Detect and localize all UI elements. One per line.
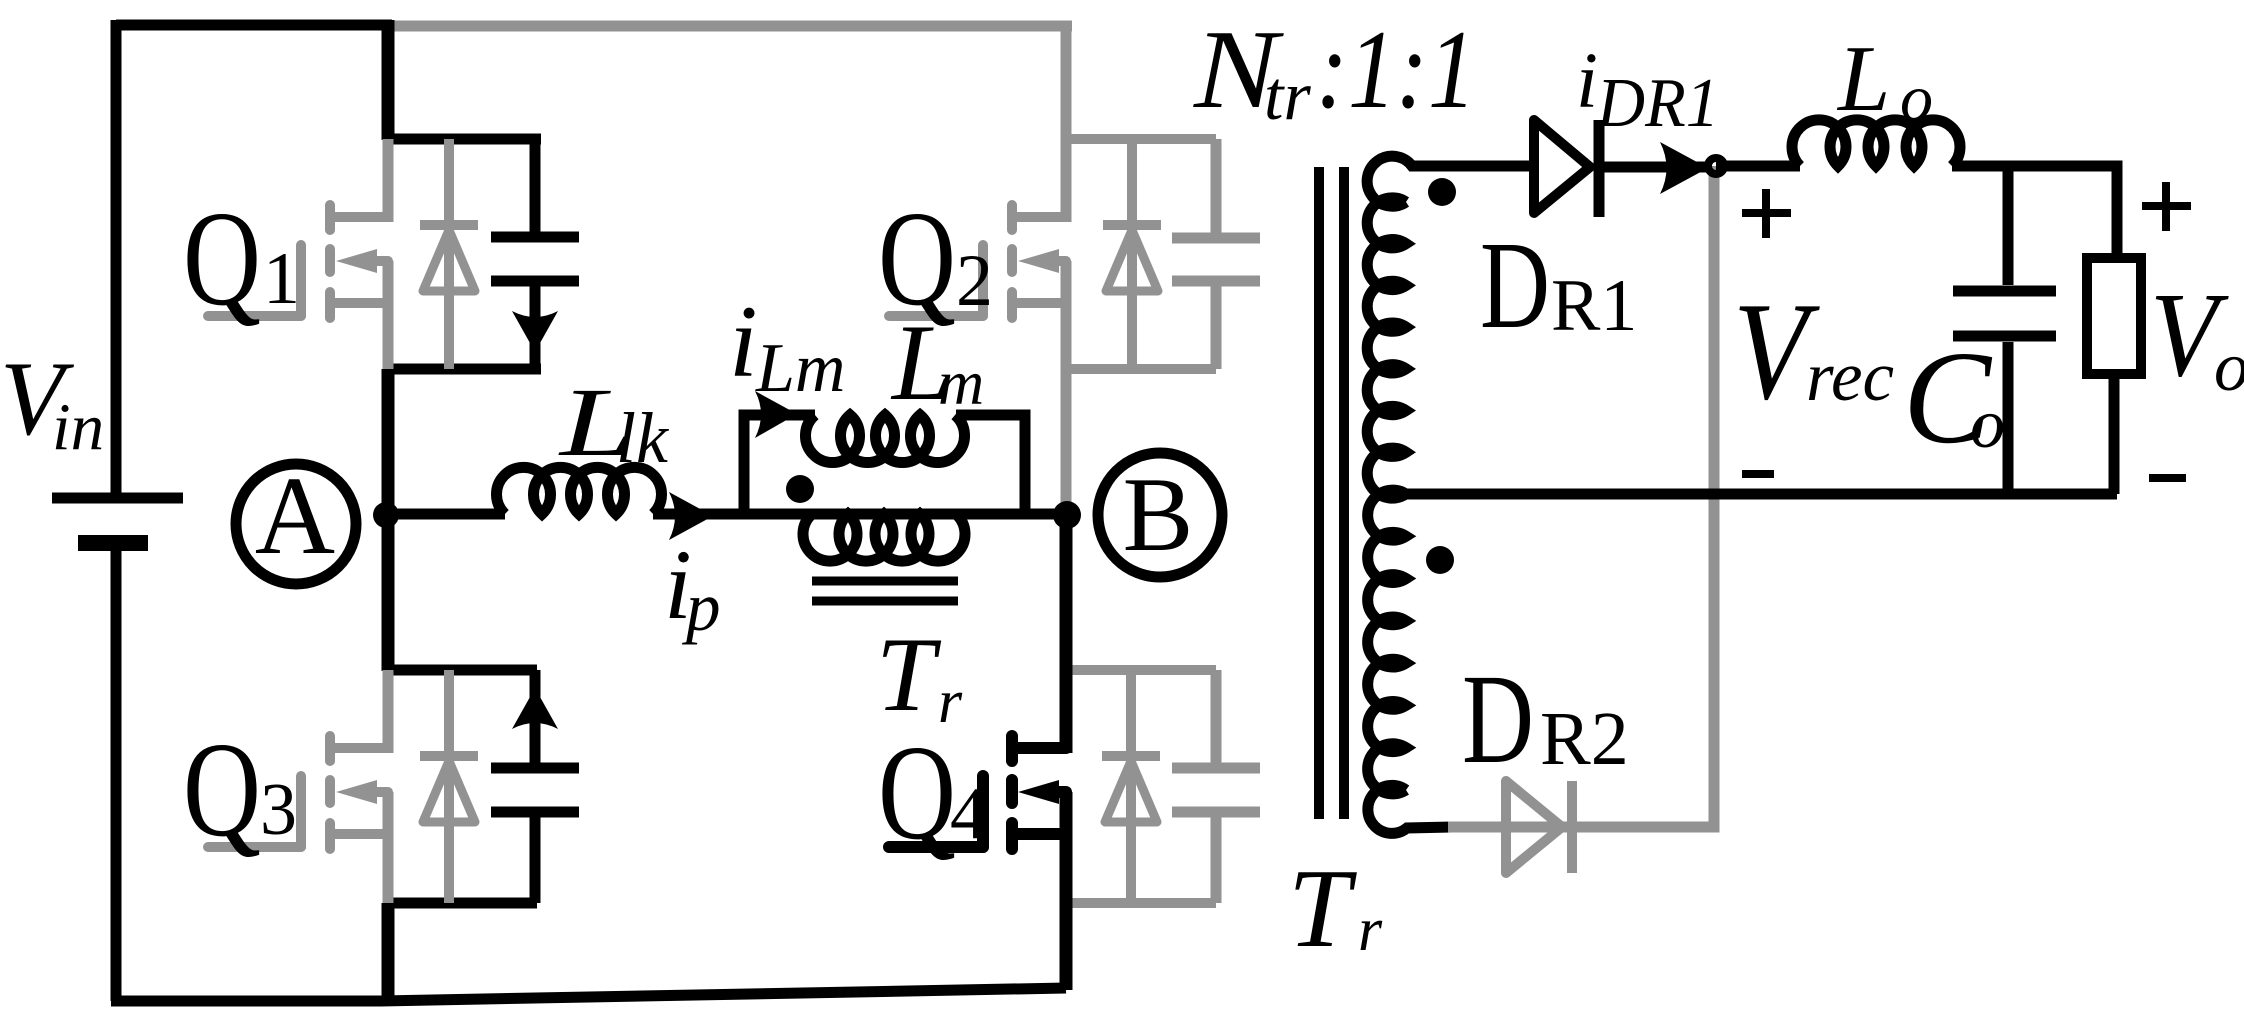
wire resistor bottom — [2109, 374, 2120, 494]
capacitor C1 — [491, 139, 579, 369]
left bridge leg upper black — [382, 20, 395, 140]
svg-text:Q: Q — [183, 184, 261, 334]
transistor Q3 — [208, 736, 388, 849]
polarity dot primary — [786, 475, 814, 503]
svg-text:i: i — [1576, 38, 1598, 125]
svg-text:Lm: Lm — [755, 330, 845, 407]
svg-text:o: o — [2214, 329, 2244, 406]
svg-text:tr: tr — [1264, 58, 1311, 135]
svg-text:1: 1 — [263, 238, 300, 320]
svg-text:p: p — [681, 569, 721, 645]
wire A to Llk — [388, 509, 505, 520]
body diode D4 — [1102, 670, 1160, 903]
wire top-left black (Vin+ to left bridge leg) — [116, 20, 392, 31]
svg-text:DR1: DR1 — [1596, 65, 1719, 142]
label - (Vo) — [2149, 474, 2186, 482]
diode DR2 (gray) — [1506, 781, 1572, 873]
svg-text:in: in — [52, 390, 104, 464]
inductor Llk — [497, 467, 662, 514]
transistor Q1 — [208, 205, 388, 318]
svg-text:2: 2 — [956, 240, 993, 322]
svg-text:L: L — [1836, 27, 1890, 131]
current arrow iDR1 — [1660, 142, 1708, 194]
transformer Tr primary core lines — [812, 581, 958, 601]
node B dot — [1053, 501, 1081, 529]
body diode D2 — [1103, 139, 1161, 369]
wire top gray (to Q2 drain) — [394, 21, 1072, 32]
current arrow through C (down) — [512, 311, 558, 352]
svg-text:o: o — [1970, 386, 2005, 463]
current arrow ip — [669, 492, 713, 540]
label - (Vrec) — [1742, 470, 1774, 478]
label + (Vo) — [2142, 182, 2191, 231]
wire Lo to output — [1952, 166, 2117, 258]
svg-text::1:1: :1:1 — [1316, 8, 1476, 132]
node Vrec dot — [1708, 158, 1724, 174]
svg-text:Q: Q — [183, 715, 261, 865]
inductor Lm branch (left riser, top rail with coil, right riser) — [744, 415, 1025, 514]
capacitor Co — [1953, 166, 2056, 494]
wire left vertical from Vin bottom — [111, 551, 122, 1001]
capacitor C3 — [491, 670, 579, 903]
wire DR1 to node — [1599, 162, 1710, 173]
svg-text:R1: R1 — [1551, 265, 1637, 347]
svg-text:r: r — [1358, 896, 1383, 964]
transistor Q2 — [889, 205, 1066, 318]
wire output bottom rail — [1404, 489, 2117, 500]
svg-text:T: T — [876, 616, 942, 733]
svg-text:B: B — [1123, 456, 1194, 573]
Q3 branch bottom rail — [383, 898, 537, 909]
wire Llk to Lm node — [653, 509, 1066, 520]
Q4 branch top rail (gray) — [1072, 665, 1216, 675]
current arrow iLm — [755, 391, 797, 438]
svg-text:m: m — [938, 347, 984, 418]
capacitor C4 — [1172, 670, 1260, 903]
secondary winding upper — [1367, 156, 1430, 206]
Q4 branch bottom rail (gray) — [1072, 898, 1216, 908]
diode DR1 — [1534, 120, 1599, 217]
svg-text:o: o — [1900, 62, 1933, 135]
battery Vin long plate — [52, 493, 183, 504]
left bridge leg lower black (Q3 source to bottom) — [382, 903, 395, 1001]
wire bottom (Vin- to bridge legs, slight slant) — [111, 988, 1066, 1001]
Q1 branch top rail — [383, 134, 541, 145]
svg-text:T: T — [1288, 847, 1357, 971]
svg-text:4: 4 — [950, 773, 987, 855]
current arrow through C (up) — [512, 688, 558, 729]
body diode D1 — [420, 139, 478, 369]
secondary winding lower — [1368, 490, 1406, 794]
left bridge leg middle black (Q1 source to A to Q3 drain) — [382, 369, 395, 671]
Q3 branch top rail — [383, 665, 537, 676]
polarity dot secondary top — [1428, 178, 1456, 206]
wire left vertical from Vin top — [111, 20, 122, 493]
battery Vin short plate — [78, 535, 148, 551]
capacitor C2 — [1172, 139, 1260, 369]
svg-text:A: A — [255, 455, 335, 578]
polarity dot secondary bottom — [1426, 546, 1454, 574]
svg-text:rec: rec — [1806, 338, 1894, 416]
Q2 branch bottom rail (gray) — [1066, 364, 1216, 374]
inductor Lo — [1792, 120, 1960, 166]
Q1 branch bottom rail — [383, 364, 541, 375]
resistor RL (load) — [2087, 258, 2141, 374]
Q2 branch top rail (gray) — [1066, 134, 1216, 144]
wire node to Lo — [1716, 161, 1800, 172]
node B circle label — [1098, 453, 1222, 577]
svg-text:D: D — [1480, 217, 1550, 355]
transistor Q4 — [889, 736, 1066, 849]
wire gray DR2 loop — [1448, 166, 1714, 827]
wire winding to DR1 — [1412, 161, 1534, 172]
body diode D3 — [420, 670, 478, 903]
node A dot — [373, 502, 399, 528]
label + (Vrec) — [1742, 189, 1791, 238]
transformer Tr core bars — [1319, 167, 1344, 819]
svg-text:i: i — [729, 285, 758, 399]
svg-text:r: r — [938, 668, 963, 736]
node A circle label — [236, 464, 356, 584]
svg-text:3: 3 — [260, 769, 297, 851]
svg-text:lk: lk — [616, 398, 670, 478]
transformer Tr primary winding — [803, 514, 965, 561]
svg-text:R2: R2 — [1540, 697, 1629, 781]
svg-text:Q: Q — [878, 718, 956, 868]
svg-text:D: D — [1462, 648, 1534, 790]
